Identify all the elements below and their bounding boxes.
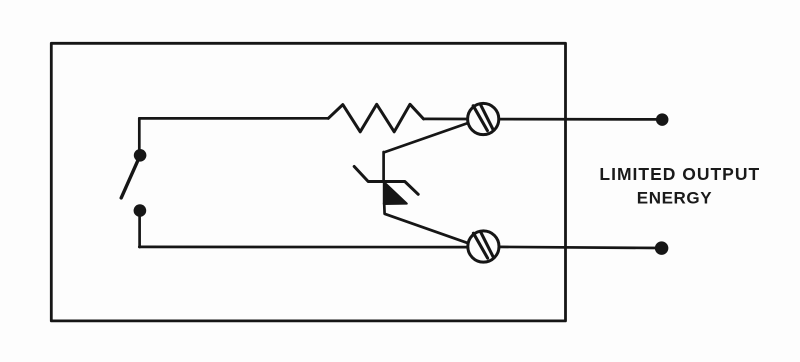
terminal T1 (upper feed-through insulator) (468, 103, 499, 134)
switch S1 blade (121, 158, 139, 198)
node: lower output terminal dot (656, 243, 667, 254)
switch S1 lower contact (134, 204, 147, 217)
wire: T1 down-left to zener cathode (384, 123, 468, 182)
switch S1 upper contact (134, 149, 147, 162)
node: upper output terminal dot (657, 115, 667, 125)
wire: left vertical upper segment (138, 118, 141, 155)
label: LIMITED OUTPUT ENERGY (599, 164, 760, 208)
terminal T2 (lower feed-through insulator) (468, 231, 499, 262)
zener diode D1 anode triangle (384, 182, 407, 204)
svg-text:ENERGY: ENERGY (637, 189, 712, 208)
wire: node A to resistor (top horizontal) (139, 117, 328, 120)
wire: zener anode to terminal T2 (384, 204, 468, 244)
wire: left vertical lower segment (138, 211, 141, 247)
zener diode D1 (cathode bar with bent ends) (354, 167, 418, 195)
wire: T2 to lower output dot (499, 247, 662, 248)
wire: resistor to terminal T1 (424, 118, 468, 121)
resistor R1 (328, 104, 423, 132)
wire: T1 to upper output dot (499, 118, 662, 121)
enclosure box (51, 43, 565, 321)
svg-text:LIMITED OUTPUT: LIMITED OUTPUT (599, 164, 760, 184)
wire: bottom horizontal to T2 (139, 246, 468, 249)
